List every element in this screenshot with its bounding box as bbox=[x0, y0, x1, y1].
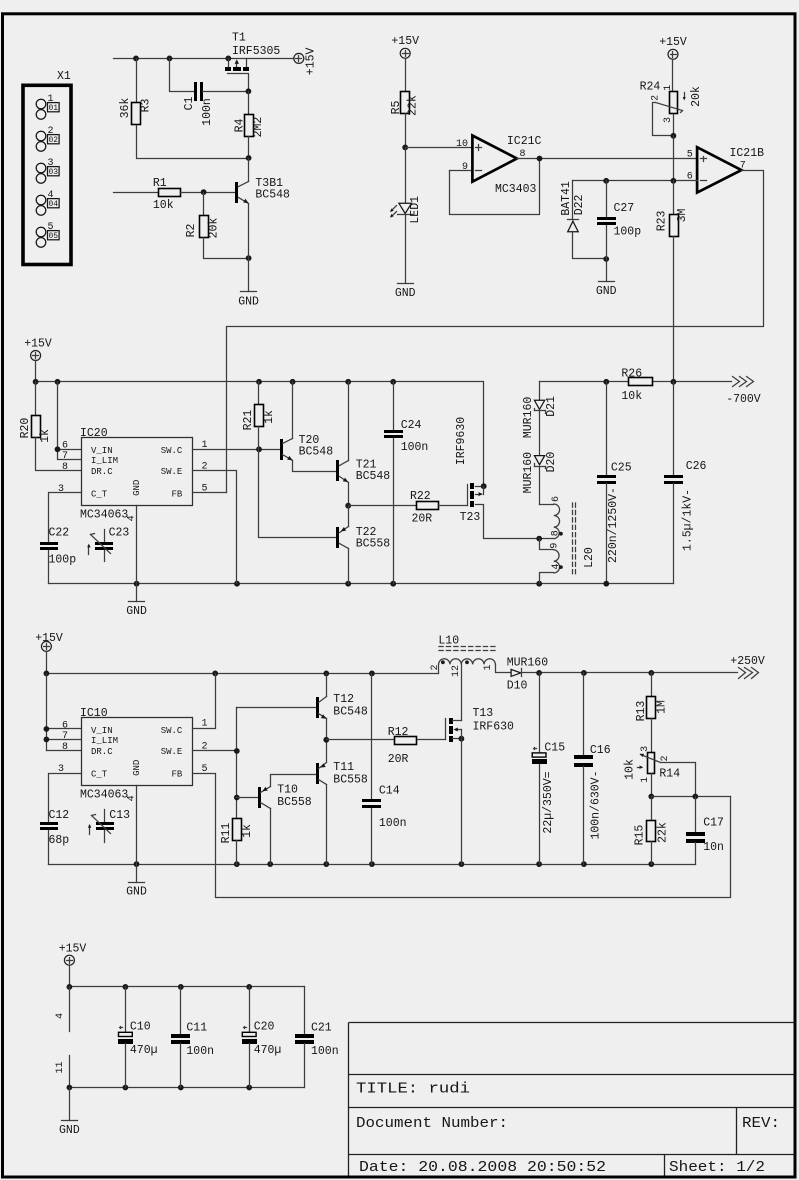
svg-text:BC548: BC548 bbox=[299, 446, 334, 459]
inductor L10 (transformer) bbox=[430, 635, 511, 721]
svg-text:5: 5 bbox=[48, 222, 54, 233]
svg-text:C27: C27 bbox=[614, 202, 635, 215]
IC IC20 MC34063 bbox=[58, 427, 208, 522]
resistor R20 1k bbox=[19, 382, 82, 471]
svg-text:C16: C16 bbox=[590, 744, 611, 757]
svg-text:3: 3 bbox=[640, 746, 651, 752]
wire GND supply bottom bbox=[67, 1085, 305, 1091]
svg-text:-700V: -700V bbox=[726, 393, 761, 406]
diode D21 MUR160 bbox=[522, 382, 558, 456]
svg-text:GND: GND bbox=[238, 296, 259, 309]
wire IC10 V_IN/I_LIM/DR.C to +15V bbox=[44, 674, 82, 751]
svg-text:I_LIM: I_LIM bbox=[91, 456, 118, 466]
svg-text:DR.C: DR.C bbox=[91, 747, 113, 757]
resistor R13 1M bbox=[635, 673, 668, 753]
ground GND (IC10) bbox=[126, 786, 147, 899]
pin 11 (supply connector) bbox=[55, 1056, 70, 1088]
svg-text:9: 9 bbox=[550, 543, 561, 549]
wire +250V output net bbox=[522, 670, 738, 676]
svg-text:1.5µ/1kV-: 1.5µ/1kV- bbox=[681, 489, 694, 551]
capacitor C21 100n bbox=[295, 987, 339, 1088]
svg-text:36k: 36k bbox=[119, 98, 132, 119]
svg-text:8: 8 bbox=[550, 530, 561, 536]
svg-text:MUR160: MUR160 bbox=[522, 452, 535, 494]
svg-text:C24: C24 bbox=[401, 419, 422, 432]
svg-text:BAT41: BAT41 bbox=[560, 181, 573, 216]
svg-text:2M2: 2M2 bbox=[252, 117, 265, 138]
svg-text:D22: D22 bbox=[573, 194, 586, 215]
svg-text:R24: R24 bbox=[640, 81, 661, 94]
svg-text:I_LIM: I_LIM bbox=[91, 736, 118, 746]
capacitor C13 (trimmer) bbox=[88, 809, 130, 842]
svg-text:R1: R1 bbox=[153, 177, 167, 190]
transistor T11 BC558 (PNP) bbox=[316, 740, 368, 865]
svg-text:7: 7 bbox=[62, 451, 68, 462]
IC IC10 MC34063 bbox=[58, 707, 208, 802]
svg-text:04: 04 bbox=[48, 200, 58, 209]
svg-text:Sheet: 1/2: Sheet: 1/2 bbox=[669, 1159, 765, 1176]
svg-text:IC20: IC20 bbox=[80, 427, 108, 440]
wire IC20 V_IN / I_LIM to +15V bbox=[55, 382, 82, 460]
ground GND (C27/D22) bbox=[596, 282, 617, 298]
svg-text:T23: T23 bbox=[460, 511, 481, 524]
svg-text:Document Number:: Document Number: bbox=[356, 1115, 508, 1132]
wire IC20 pin 1 (SW.C) to T20 base bbox=[193, 446, 281, 452]
svg-text:IC21B: IC21B bbox=[730, 147, 765, 160]
wire IC10 pin 5 (FB) loop to R14/R15 node bbox=[193, 774, 731, 898]
svg-text:Date: 20.08.2008 20:50:52: Date: 20.08.2008 20:50:52 bbox=[359, 1159, 606, 1176]
transistor T13 IRF630 (N-MOSFET) bbox=[446, 707, 515, 865]
svg-text:R23: R23 bbox=[655, 210, 668, 231]
svg-text:4: 4 bbox=[126, 795, 137, 801]
op-amp IC21B MC3403 bbox=[687, 147, 764, 193]
svg-text:MC34063: MC34063 bbox=[80, 509, 128, 522]
svg-text:3: 3 bbox=[48, 158, 54, 169]
pin 4 (supply connector) bbox=[55, 987, 70, 1032]
power +15V (top, rotated) bbox=[294, 48, 318, 76]
diode D10 MUR160 bbox=[507, 656, 549, 692]
wire IC20 pin 5 (FB) bbox=[193, 492, 227, 494]
capacitor C1 100n bbox=[170, 59, 252, 126]
transistor T10 BC558 (PNP) bbox=[237, 775, 316, 865]
svg-text:D20: D20 bbox=[545, 452, 558, 473]
svg-text:100p: 100p bbox=[614, 225, 642, 238]
svg-text:MC3403: MC3403 bbox=[495, 183, 537, 196]
svg-text:02: 02 bbox=[48, 136, 58, 145]
wire IC20 pin 2 (SW.E) to GND rail bbox=[193, 471, 237, 584]
svg-text:TITLE: rudi: TITLE: rudi bbox=[356, 1081, 470, 1098]
resistor R23 3M bbox=[655, 181, 689, 382]
svg-text:11: 11 bbox=[55, 1061, 66, 1073]
diode D20 MUR160 bbox=[522, 452, 558, 505]
resistor R21 1k bbox=[242, 382, 276, 450]
potentiometer R14 10k bbox=[623, 746, 695, 800]
capacitor C23 (trimmer) bbox=[87, 527, 129, 562]
svg-text:4: 4 bbox=[48, 190, 54, 201]
svg-text:BC548: BC548 bbox=[255, 189, 290, 202]
resistor R5 22k bbox=[390, 59, 420, 151]
svg-text:SW.E: SW.E bbox=[161, 747, 183, 757]
svg-text:T1: T1 bbox=[232, 32, 246, 45]
svg-text:100n: 100n bbox=[401, 441, 429, 454]
svg-text:R2: R2 bbox=[185, 224, 198, 238]
wire IC21C output to IC21B pin 5 bbox=[517, 156, 698, 162]
svg-text:+15V: +15V bbox=[59, 942, 87, 955]
svg-text:1M: 1M bbox=[656, 700, 669, 714]
svg-text:BC548: BC548 bbox=[333, 706, 368, 719]
op-amp IC21C MC3403 bbox=[450, 135, 542, 215]
svg-text:+250V: +250V bbox=[730, 655, 765, 668]
svg-text:C23: C23 bbox=[109, 527, 130, 540]
svg-text:9: 9 bbox=[462, 162, 468, 173]
svg-text:7: 7 bbox=[62, 731, 68, 742]
title block bbox=[349, 1023, 795, 1177]
svg-text:3: 3 bbox=[58, 484, 64, 495]
svg-text:SW.E: SW.E bbox=[161, 467, 183, 477]
svg-text:+15V: +15V bbox=[305, 48, 318, 76]
svg-text:C17: C17 bbox=[703, 816, 724, 829]
svg-text:BC558: BC558 bbox=[277, 796, 312, 809]
svg-text:IRF630: IRF630 bbox=[473, 720, 515, 733]
svg-text:01: 01 bbox=[48, 104, 58, 113]
capacitor C15 22u/350V= bbox=[532, 673, 565, 865]
svg-text:MUR160: MUR160 bbox=[507, 656, 549, 669]
svg-text:R3: R3 bbox=[140, 99, 153, 113]
svg-text:4: 4 bbox=[551, 564, 562, 570]
svg-text:BC558: BC558 bbox=[333, 774, 368, 787]
svg-text:C1: C1 bbox=[183, 97, 196, 111]
capacitor C11 100n bbox=[171, 987, 214, 1088]
svg-text:C25: C25 bbox=[611, 462, 632, 475]
ground GND (supply) bbox=[59, 1088, 80, 1138]
svg-text:10: 10 bbox=[456, 139, 468, 150]
svg-text:100n: 100n bbox=[186, 1045, 214, 1058]
svg-text:2: 2 bbox=[430, 664, 441, 670]
power +15V (above R5) bbox=[391, 35, 419, 58]
svg-text:C14: C14 bbox=[379, 785, 400, 798]
svg-text:T10: T10 bbox=[277, 784, 298, 797]
svg-text:+15V: +15V bbox=[391, 35, 419, 48]
capacitor C20 470u bbox=[242, 987, 281, 1088]
svg-text:4: 4 bbox=[55, 1013, 66, 1019]
svg-text:05: 05 bbox=[48, 232, 58, 241]
power +15V (IC20 section) bbox=[24, 338, 52, 361]
svg-text:20k: 20k bbox=[207, 218, 220, 239]
transistor T3B1 BC548 (NPN) bbox=[235, 159, 290, 259]
svg-text:GND: GND bbox=[132, 760, 142, 776]
svg-text:BC548: BC548 bbox=[356, 470, 391, 483]
capacitor C12 68p (on C_T) bbox=[40, 774, 82, 865]
svg-text:R22: R22 bbox=[410, 490, 431, 503]
svg-text:1: 1 bbox=[48, 94, 54, 105]
power +15V (above R24) bbox=[659, 36, 687, 59]
capacitor C16 100n/630V- bbox=[574, 673, 611, 865]
svg-text:10k: 10k bbox=[621, 390, 642, 403]
svg-text:6: 6 bbox=[551, 496, 562, 502]
svg-text:MUR160: MUR160 bbox=[522, 397, 535, 439]
node -700V (arrow) bbox=[726, 377, 761, 406]
svg-text:C20: C20 bbox=[254, 1021, 275, 1034]
resistor R12 20R bbox=[327, 726, 446, 766]
svg-text:R20: R20 bbox=[19, 418, 32, 439]
resistor R26 10k bbox=[621, 367, 652, 403]
resistor R15 22k bbox=[634, 797, 670, 865]
svg-text:R11: R11 bbox=[220, 823, 233, 844]
svg-text:R12: R12 bbox=[388, 726, 409, 739]
capacitor C17 10n bbox=[686, 797, 724, 865]
capacitor C25 220n/1250V- bbox=[597, 382, 632, 584]
svg-text:C22: C22 bbox=[49, 527, 70, 540]
svg-text:C_T: C_T bbox=[91, 490, 108, 500]
svg-text:+15V: +15V bbox=[659, 36, 687, 49]
capacitor C27 100p bbox=[597, 181, 641, 282]
svg-text:3M: 3M bbox=[676, 209, 689, 223]
svg-text:GND: GND bbox=[126, 886, 147, 899]
svg-text:20k: 20k bbox=[690, 86, 703, 107]
svg-text:X1: X1 bbox=[57, 70, 71, 83]
transistor T23 IRF9630 (P-MOSFET) bbox=[455, 417, 539, 539]
resistor R2 20k bbox=[185, 193, 252, 262]
svg-text:03: 03 bbox=[48, 168, 58, 177]
svg-text:R4: R4 bbox=[233, 119, 246, 133]
wire IC10 pin 2 (SW.E) / T12 base node bbox=[193, 708, 316, 819]
svg-text:IC10: IC10 bbox=[80, 707, 108, 720]
svg-text:4: 4 bbox=[126, 515, 137, 521]
svg-text:68p: 68p bbox=[49, 834, 70, 847]
wire +15V rail (IC10 section) bbox=[44, 652, 439, 677]
svg-text:C_T: C_T bbox=[91, 770, 108, 780]
svg-text:10k: 10k bbox=[623, 759, 636, 780]
ground GND (IC20) bbox=[126, 506, 147, 619]
svg-text:V_IN: V_IN bbox=[91, 446, 113, 456]
svg-text:FB: FB bbox=[171, 490, 182, 500]
svg-text:R21: R21 bbox=[242, 410, 255, 431]
svg-text:10k: 10k bbox=[153, 199, 174, 212]
svg-text:R5: R5 bbox=[390, 101, 403, 115]
svg-text:1: 1 bbox=[640, 777, 651, 783]
wire +15V supply top bbox=[67, 966, 305, 990]
connector X1 bbox=[23, 70, 71, 265]
wire IC21B pin 6 input net bbox=[573, 178, 698, 184]
svg-text:IRF5305: IRF5305 bbox=[232, 45, 280, 58]
wire +15V rail (IC20 section) bbox=[33, 361, 484, 487]
svg-text:D10: D10 bbox=[507, 680, 528, 693]
capacitor C10 470u bbox=[118, 987, 158, 1088]
svg-text:+15V: +15V bbox=[24, 338, 52, 351]
wire R14/R15/C17 node bbox=[652, 794, 731, 800]
svg-text:1k: 1k bbox=[39, 429, 52, 443]
svg-text:L20: L20 bbox=[583, 547, 596, 568]
transistor T1 IRF5305 (P-MOSFET) bbox=[225, 32, 280, 92]
svg-text:GND: GND bbox=[596, 285, 617, 298]
svg-text:100n: 100n bbox=[201, 98, 214, 126]
resistor R4 2M2 bbox=[233, 92, 265, 159]
svg-text:12: 12 bbox=[451, 665, 462, 677]
svg-text:D21: D21 bbox=[545, 396, 558, 417]
resistor R11 1k bbox=[220, 819, 254, 865]
svg-text:R15: R15 bbox=[634, 825, 647, 846]
svg-text:FB: FB bbox=[171, 770, 182, 780]
svg-text:L10: L10 bbox=[438, 635, 459, 648]
svg-text:1: 1 bbox=[663, 85, 674, 91]
svg-text:C11: C11 bbox=[186, 1022, 207, 1035]
svg-text:C21: C21 bbox=[311, 1022, 332, 1035]
capacitor C14 100n bbox=[362, 674, 407, 865]
svg-text:SW.C: SW.C bbox=[161, 726, 183, 736]
svg-text:5: 5 bbox=[687, 149, 693, 160]
svg-text:1k: 1k bbox=[241, 824, 254, 838]
wire +15V top rail (T1 section) bbox=[114, 56, 294, 62]
capacitor C24 100n bbox=[384, 382, 428, 584]
svg-text:R14: R14 bbox=[659, 767, 680, 780]
svg-text:GND: GND bbox=[132, 480, 142, 496]
svg-text:1k: 1k bbox=[263, 410, 276, 424]
potentiometer R24 20k bbox=[640, 60, 704, 181]
svg-text:2: 2 bbox=[48, 126, 54, 137]
transistor T21 BC548 (NPN) bbox=[336, 382, 390, 509]
node +250V (arrow) bbox=[730, 655, 765, 679]
svg-text:SW.C: SW.C bbox=[161, 446, 183, 456]
svg-text:220n/1250V-: 220n/1250V- bbox=[607, 487, 620, 563]
svg-text:C12: C12 bbox=[49, 809, 70, 822]
svg-text:100n/630V-: 100n/630V- bbox=[590, 770, 603, 839]
wire GND rail (IC20 section) bbox=[49, 581, 674, 587]
svg-text:IC21C: IC21C bbox=[507, 135, 542, 148]
power +15V (supply filter) bbox=[59, 942, 87, 965]
svg-text:T12: T12 bbox=[333, 693, 354, 706]
resistor R1 10k bbox=[114, 177, 236, 212]
wire IC10 pin 1 (SW.C) to +15V rail bbox=[193, 674, 216, 729]
svg-text:100p: 100p bbox=[49, 554, 77, 567]
svg-text:20R: 20R bbox=[412, 513, 433, 526]
svg-text:10n: 10n bbox=[703, 841, 724, 854]
resistor R3 36k bbox=[119, 59, 252, 161]
ground GND (LED1) bbox=[395, 284, 416, 301]
svg-text:T13: T13 bbox=[473, 707, 494, 720]
resistor R22 20R bbox=[349, 490, 468, 525]
svg-text:IRF9630: IRF9630 bbox=[455, 417, 468, 465]
svg-text:DR.C: DR.C bbox=[91, 467, 113, 477]
transistor T22 BC558 (PNP) bbox=[259, 450, 391, 584]
svg-text:MC34063: MC34063 bbox=[80, 789, 128, 802]
transistor T12 BC548 (NPN) bbox=[316, 674, 368, 743]
svg-text:R13: R13 bbox=[635, 701, 648, 722]
svg-text:REV:: REV: bbox=[742, 1115, 780, 1132]
ground GND (T3B1 emitter) bbox=[238, 259, 259, 309]
svg-text:20R: 20R bbox=[388, 753, 409, 766]
svg-text:100n: 100n bbox=[379, 817, 407, 830]
svg-text:100n: 100n bbox=[311, 1045, 339, 1058]
wire -700V output net bbox=[540, 379, 732, 385]
svg-text:22µ/350V=: 22µ/350V= bbox=[542, 771, 555, 833]
svg-text:LED1: LED1 bbox=[409, 196, 422, 224]
svg-text:2: 2 bbox=[660, 755, 671, 761]
svg-text:R26: R26 bbox=[621, 367, 642, 380]
svg-text:8: 8 bbox=[62, 742, 68, 753]
svg-text:C26: C26 bbox=[686, 460, 707, 473]
svg-text:T11: T11 bbox=[333, 761, 354, 774]
wire IC21B output feedback to IC20 pin 5 (FB) bbox=[227, 171, 764, 493]
transformer L20 bbox=[536, 496, 596, 584]
svg-text:22k: 22k bbox=[657, 822, 670, 843]
capacitor C26 1.5u/1kV- bbox=[664, 382, 707, 584]
svg-text:8: 8 bbox=[62, 462, 68, 473]
svg-text:GND: GND bbox=[59, 1124, 80, 1137]
svg-text:+15V: +15V bbox=[35, 632, 63, 645]
svg-text:470µ: 470µ bbox=[130, 1044, 158, 1057]
diode D22 BAT41 bbox=[560, 181, 609, 262]
svg-text:BC558: BC558 bbox=[356, 538, 391, 551]
wire GND rail (IC10 section) bbox=[49, 861, 696, 867]
svg-text:C13: C13 bbox=[109, 809, 130, 822]
wire R5 junction to IC21C pin 10 bbox=[406, 147, 473, 149]
svg-text:22k: 22k bbox=[407, 95, 420, 116]
svg-text:3: 3 bbox=[663, 117, 674, 123]
diode LED1 bbox=[390, 148, 422, 283]
power +15V (IC10 section) bbox=[35, 632, 63, 651]
svg-text:2: 2 bbox=[651, 95, 662, 101]
svg-text:GND: GND bbox=[395, 287, 416, 300]
transistor T20 BC548 (NPN) bbox=[280, 382, 337, 472]
svg-text:C10: C10 bbox=[130, 1021, 151, 1034]
svg-text:470µ: 470µ bbox=[254, 1044, 282, 1057]
capacitor C22 100p (on C_T) bbox=[40, 493, 82, 584]
svg-text:GND: GND bbox=[126, 605, 147, 618]
svg-text:1: 1 bbox=[483, 664, 494, 670]
svg-text:C15: C15 bbox=[544, 742, 565, 755]
svg-text:V_IN: V_IN bbox=[91, 726, 113, 736]
